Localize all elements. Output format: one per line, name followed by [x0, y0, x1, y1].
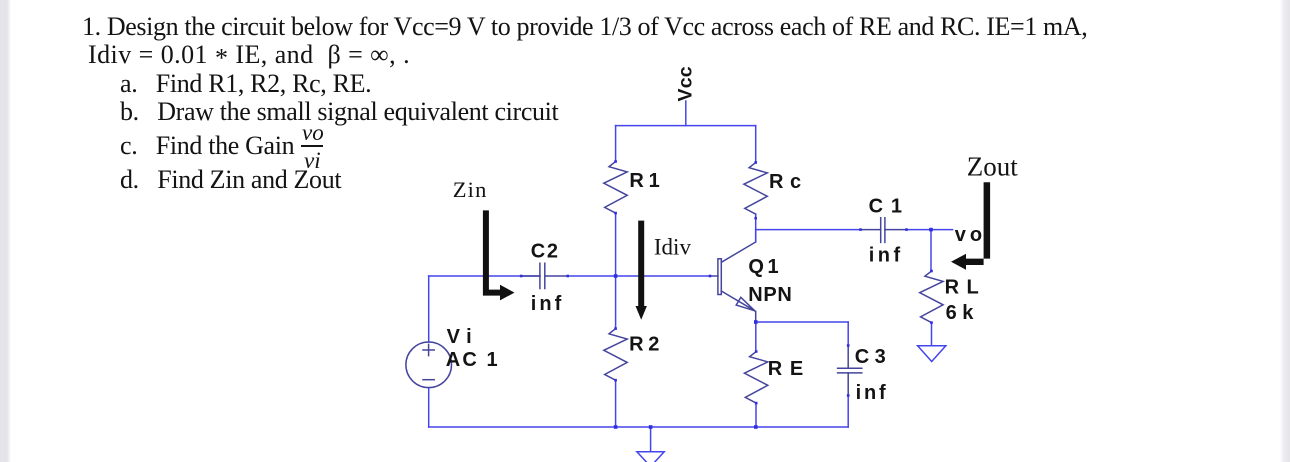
- pin dot R1 top: [614, 160, 617, 163]
- svg-text:C1: C1: [869, 196, 910, 218]
- capacitor C3 plates: [838, 368, 862, 373]
- resistor RE: [744, 352, 767, 404]
- wire emitter to C3: [756, 321, 848, 323]
- wire center ground stem: [650, 427, 652, 451]
- transistor Q1 base bar: [718, 259, 721, 295]
- ground under RL: [918, 346, 946, 362]
- svg-text:Vi: Vi: [447, 326, 479, 348]
- source minus sign: [423, 379, 434, 381]
- transistor Q1 emitter arrowhead: [736, 297, 755, 311]
- wire RE top lead: [755, 322, 757, 352]
- junction center ground rail: [649, 425, 653, 429]
- junction base divider node: [614, 274, 618, 278]
- capacitor C2 right pin: [545, 275, 568, 277]
- svg-text:Idiv: Idiv: [654, 235, 692, 260]
- pin dot base: [709, 275, 712, 278]
- svg-text:inf: inf: [856, 382, 889, 404]
- capacitor C3 top pin: [847, 346, 849, 369]
- transistor Q1 base pin: [710, 275, 718, 277]
- wire RL bottom lead: [931, 323, 933, 345]
- svg-text:Q1: Q1: [748, 256, 782, 278]
- svg-text:RE: RE: [768, 358, 811, 380]
- capacitor C2 plates: [540, 263, 545, 288]
- pin dot C1 right: [905, 228, 908, 231]
- source Vi circle: [406, 342, 452, 388]
- pin dot RL bottom: [930, 321, 933, 324]
- ground center symbol: [637, 452, 664, 462]
- wire Rc bottom lead: [755, 214, 757, 242]
- wire left column top: [615, 126, 617, 162]
- pin dot RE bottom: [755, 402, 758, 405]
- wire bottom rail: [429, 426, 849, 428]
- capacitor C1 left pin: [861, 229, 881, 231]
- pin dot Rc top: [754, 161, 757, 164]
- arrow Zin: [483, 210, 515, 300]
- pin dot C3 bottom: [847, 394, 850, 397]
- wire left column bottom: [615, 380, 617, 427]
- wire output segment: [756, 229, 861, 231]
- arrow Idiv: [636, 221, 647, 320]
- svg-text:RL: RL: [945, 277, 987, 299]
- wire left column middle: [615, 213, 617, 328]
- svg-text:Zout: Zout: [967, 152, 1018, 182]
- svg-text:inf: inf: [869, 245, 904, 267]
- svg-text:inf: inf: [531, 293, 564, 315]
- resistor Rc: [744, 163, 767, 215]
- svg-text:Rc: Rc: [769, 171, 808, 193]
- wire source bottom lead: [428, 388, 430, 427]
- capacitor C1 right pin: [885, 229, 907, 231]
- svg-text:R1: R1: [629, 170, 664, 192]
- junction emitter node: [754, 320, 758, 324]
- svg-text:6k: 6k: [946, 302, 979, 324]
- transistor Q1 collector diagonal: [721, 230, 755, 263]
- pin dot Rc bottom: [754, 217, 757, 220]
- pin dot R2 bottom: [614, 379, 617, 382]
- pin dot C1 left: [859, 228, 862, 231]
- source plus sign: [423, 344, 434, 355]
- pin dot RL top: [930, 270, 933, 273]
- capacitor C3 bottom pin: [847, 373, 849, 396]
- wire vo drop to RL: [930, 230, 932, 271]
- pin dot R2 top: [614, 327, 617, 330]
- resistor RL: [920, 271, 943, 323]
- wire C3 bottom lead: [847, 396, 849, 428]
- wire top rail from R1 to Rc: [616, 125, 756, 127]
- capacitor C1 plates: [881, 218, 885, 243]
- wire right column top: [755, 126, 757, 163]
- wire C3 top lead: [847, 322, 849, 346]
- junction R2 bottom rail: [614, 425, 618, 429]
- junction RE bottom rail: [754, 425, 758, 429]
- capacitor C2 left pin: [521, 275, 540, 277]
- resistor R2: [604, 329, 627, 381]
- svg-text:Zin: Zin: [453, 177, 488, 202]
- pin dot R1 bottom: [614, 212, 617, 215]
- resistor R1: [604, 162, 627, 214]
- pin dot RE top: [755, 350, 758, 353]
- wire RE bottom lead: [755, 403, 757, 427]
- svg-text:C3: C3: [855, 346, 892, 368]
- transistor Q1 emitter diagonal: [721, 291, 755, 322]
- svg-text:Vcc: Vcc: [675, 66, 697, 101]
- pin dot C2 right: [566, 275, 569, 278]
- pin dot C2 left: [520, 275, 523, 278]
- wire source top lead: [428, 276, 430, 342]
- arrow Zout: [951, 182, 990, 270]
- svg-text:vo: vo: [955, 224, 986, 246]
- svg-text:AC 1: AC 1: [446, 349, 500, 371]
- wire input segment: [429, 275, 540, 277]
- wire Vcc stem: [685, 101, 687, 126]
- pin dot C3 top: [847, 344, 850, 347]
- svg-text:R2: R2: [629, 333, 664, 355]
- svg-text:NPN: NPN: [748, 284, 792, 306]
- wire input to base: [568, 275, 710, 277]
- svg-text:C2: C2: [531, 241, 560, 263]
- wire output to vo: [907, 229, 953, 231]
- junction vo node: [929, 228, 933, 232]
